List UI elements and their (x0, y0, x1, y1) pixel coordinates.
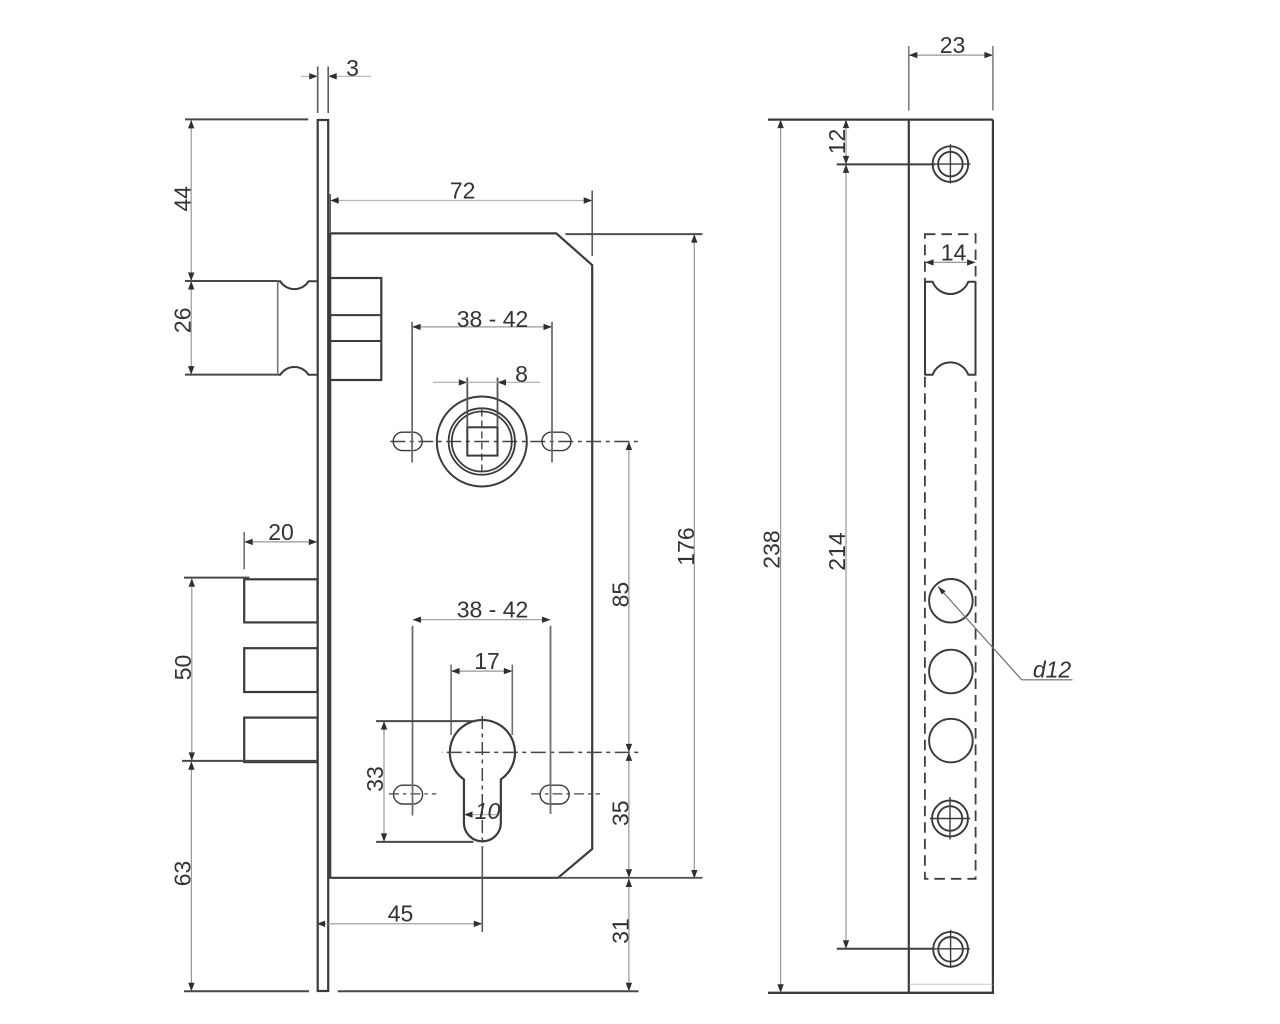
dimension 3 (faceplate thickness) (301, 75, 318, 77)
connector line 214 to bottom screw (837, 948, 934, 950)
extension line latch bottom (26) (185, 374, 278, 376)
svg-text:d12: d12 (1033, 657, 1072, 683)
dimension 10 (465, 814, 501, 816)
svg-text:14: 14 (941, 239, 967, 265)
top screw hole (933, 146, 969, 182)
svg-text:26: 26 (169, 308, 195, 334)
follower vertical centerline (481, 410, 483, 473)
follower middle circle (449, 408, 515, 474)
extension line body bottom to 176/31 (559, 877, 703, 879)
screw oval upper left (393, 432, 422, 450)
svg-text:12: 12 (824, 129, 850, 155)
svg-text:20: 20 (268, 519, 294, 545)
svg-text:3: 3 (346, 55, 359, 81)
svg-text:85: 85 (607, 582, 633, 608)
dimension 33 (383, 722, 385, 841)
follower inner circle (452, 412, 512, 472)
d12 hole 2 (929, 650, 973, 694)
bottom screw crosshair (950, 930, 952, 968)
screw oval lower right (540, 785, 569, 804)
d12 leader line (938, 587, 1073, 680)
cylinder horizontal centerline (442, 751, 640, 753)
plate bottom inner line (910, 983, 993, 985)
latch bolt head face line (277, 281, 279, 375)
middle screw crosshair (949, 797, 951, 840)
faceplate side view (vertical strip) (318, 120, 329, 991)
extension lines 17 (450, 665, 452, 735)
latch bolt front view (925, 281, 976, 375)
extension line 20 left (243, 532, 245, 570)
dimension 214 (845, 165, 847, 948)
dimension 14 (926, 261, 975, 263)
dimension 45 (317, 923, 481, 925)
dashed cutout rectangle (925, 234, 976, 879)
cylinder vertical centerline (481, 716, 483, 848)
oval lower left centerline (389, 793, 436, 795)
latch body behind faceplate (329, 278, 381, 380)
screw oval upper right (542, 432, 571, 450)
oval lower right centerline (531, 793, 600, 795)
dimension 44 (190, 121, 192, 281)
d12 hole 3 (929, 719, 973, 763)
deadbolt block 2 (244, 648, 317, 692)
follower square hole 8mm (467, 427, 497, 455)
bottom extension line left of faceplate (63 bottom) (184, 990, 309, 992)
extension line 33 bottom (376, 841, 473, 843)
dimension 176 (693, 235, 695, 878)
extension line 72 left (329, 194, 331, 232)
svg-text:33: 33 (362, 766, 388, 792)
deadbolt block 3 (244, 718, 317, 763)
svg-text:63: 63 (169, 861, 195, 887)
svg-text:38 - 42: 38 - 42 (457, 306, 529, 332)
middle screw hole (932, 801, 968, 837)
svg-text:45: 45 (388, 901, 414, 927)
deadbolt block 1 (244, 579, 317, 622)
faceplate front outline (909, 120, 993, 993)
extension lines 23 (908, 46, 910, 111)
svg-text:238: 238 (759, 530, 785, 568)
dimension 8 (433, 381, 540, 383)
dimension 12 (845, 120, 847, 163)
svg-text:17: 17 (474, 648, 500, 674)
svg-text:214: 214 (824, 532, 850, 571)
dimension 20 (245, 541, 317, 543)
dimension 38-42 lower (413, 619, 550, 621)
svg-text:38 - 42: 38 - 42 (457, 597, 529, 623)
extension lines 8 (square sides up) (466, 378, 468, 428)
svg-text:31: 31 (607, 918, 633, 944)
d12 hole 1 (929, 579, 973, 623)
extension line 176 top (565, 233, 702, 235)
latch bolt head (side view, left of faceplate) (278, 281, 318, 375)
svg-text:23: 23 (940, 32, 966, 58)
extension line 72 right (591, 191, 593, 257)
extension 45 right (cylinder centerline below) (481, 846, 483, 932)
dimension 63 (190, 762, 192, 991)
screw oval lower left (394, 785, 423, 804)
dimension 85 (628, 442, 630, 752)
dimension 26 (190, 282, 192, 374)
dimension 50 (191, 579, 193, 760)
plate bottom edge + extension to 238 (768, 992, 994, 994)
follower horizontal centerline (388, 441, 640, 443)
svg-text:72: 72 (450, 177, 476, 203)
faceplate extension lines above (for dim 3) (317, 67, 319, 114)
connector line 12/214 to top screw (837, 163, 935, 165)
extension line 50 bottom / 63 top (182, 760, 317, 762)
svg-text:8: 8 (515, 361, 528, 387)
plate top edge + extension to 238 (768, 118, 993, 120)
extension line 44 top (185, 118, 308, 120)
dimension 23 (910, 54, 993, 56)
extension lines 38-42 upper (411, 322, 413, 463)
bottom extension line right of faceplate (45/31) (338, 990, 639, 992)
dimension 38-42 upper (413, 326, 551, 328)
bottom screw hole (933, 932, 968, 967)
extension line 50 top (184, 577, 249, 579)
lock body outline (chamfered top-right and bottom-right corners) (330, 233, 592, 877)
svg-text:50: 50 (170, 655, 196, 681)
dimension 238 (780, 120, 782, 992)
svg-text:176: 176 (673, 527, 699, 565)
svg-text:44: 44 (169, 186, 195, 212)
dimension 35 (628, 753, 630, 877)
dimension 17 (452, 670, 512, 672)
top screw crosshair (949, 144, 951, 183)
euro cylinder keyhole outline (450, 720, 515, 841)
follower outer circle (437, 397, 527, 487)
dimension 31 (628, 879, 630, 990)
extension line 33 top (376, 720, 476, 722)
extension line latch top (44/26) (185, 280, 278, 282)
svg-text:10: 10 (475, 798, 501, 824)
dimension 72 (332, 200, 591, 202)
extension lines 38-42 lower (412, 626, 414, 816)
svg-text:35: 35 (607, 800, 633, 826)
